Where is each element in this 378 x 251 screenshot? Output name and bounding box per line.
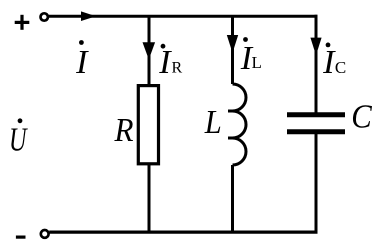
wire: L branch lower [231, 165, 234, 233]
arrow for current IL [227, 35, 238, 53]
arrow for current IC [310, 38, 321, 56]
svg-text:C: C [335, 58, 346, 77]
label U (dot) [18, 118, 23, 123]
svg-text:R: R [114, 112, 134, 149]
wire: C branch upper [315, 15, 318, 113]
svg-text:L: L [252, 53, 262, 72]
top terminal circle [41, 13, 48, 20]
arrow for current IR [143, 42, 156, 59]
svg-text:R: R [172, 60, 183, 77]
resistor R [138, 86, 158, 164]
wire: R branch lower [148, 164, 151, 233]
svg-text:I: I [158, 44, 172, 81]
svg-text:L: L [204, 104, 222, 141]
plus terminal sign [15, 15, 30, 30]
label I (dot) [79, 40, 84, 45]
wire: top horizontal [49, 15, 318, 18]
minus terminal sign [16, 236, 26, 239]
capacitor C top plate [287, 112, 345, 117]
bottom terminal circle [41, 230, 49, 238]
label IC (dot) [326, 43, 331, 48]
label IL (dot) [243, 37, 248, 42]
wire: L branch upper [231, 15, 234, 84]
svg-text:U: U [9, 122, 28, 159]
inductor L [233, 84, 247, 165]
svg-text:I: I [75, 44, 89, 81]
arrow for current I on top wire [81, 11, 96, 21]
label IR (dot) [161, 44, 166, 49]
svg-text:C: C [351, 99, 372, 136]
wire: C branch lower [315, 134, 318, 234]
wire: bottom horizontal [49, 231, 317, 234]
capacitor C bottom plate [287, 129, 345, 134]
wire: R branch upper [148, 15, 151, 85]
